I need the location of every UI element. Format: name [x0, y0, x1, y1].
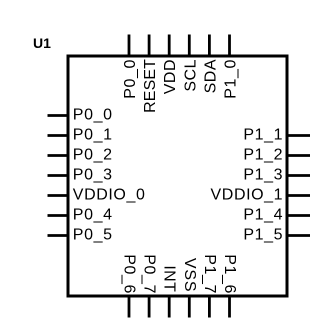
svg-text:P0_5: P0_5 [73, 227, 113, 244]
pin wire P0_0 top [128, 35, 131, 57]
svg-text:VDDIO_1: VDDIO_1 [211, 187, 284, 204]
svg-text:RESET: RESET [142, 59, 159, 113]
pin wire SDA top [208, 35, 211, 57]
svg-text:P0_4: P0_4 [73, 207, 113, 224]
svg-text:VSS: VSS [181, 258, 198, 292]
pin wire SCL top [188, 35, 191, 57]
pin wire P1_3 right [287, 174, 310, 177]
svg-text:U1: U1 [33, 35, 51, 51]
svg-text:INT: INT [161, 265, 178, 292]
svg-text:P1_6: P1_6 [221, 254, 238, 294]
svg-text:P0_1: P0_1 [73, 127, 113, 144]
pin wire P1_7 bottom [208, 296, 211, 318]
pin wire P1_5 right [287, 234, 310, 237]
pin wire RESET top [148, 35, 151, 57]
svg-text:P0_0: P0_0 [122, 59, 139, 99]
svg-text:P1_2: P1_2 [243, 147, 283, 164]
pin 2 wire P0_1 left [48, 134, 69, 137]
pin wire VDD top [168, 35, 171, 57]
pin wire VSS bottom [188, 296, 191, 318]
pin 5 wire VDDIO_0 left [48, 194, 69, 197]
svg-text:VDDIO_0: VDDIO_0 [73, 187, 146, 204]
pin wire P0_6 bottom [128, 296, 131, 318]
pin wire VDDIO_1 right [287, 194, 310, 197]
svg-text:P0_0: P0_0 [73, 107, 113, 124]
pin wire P0_7 bottom [148, 296, 151, 318]
svg-text:P1_1: P1_1 [243, 127, 283, 144]
pin 3 wire P0_2 left [48, 154, 69, 157]
pin 4 wire P0_3 left [48, 174, 69, 177]
pin 1 wire P0_0 left [48, 114, 69, 117]
pin wire P1_1 right [287, 134, 310, 137]
svg-text:P0_3: P0_3 [73, 167, 113, 184]
IC body U1 [68, 56, 287, 296]
svg-text:P1_3: P1_3 [243, 167, 283, 184]
pin 6 wire P0_4 left [48, 214, 69, 217]
svg-text:P1_0: P1_0 [223, 59, 240, 99]
svg-text:P1_5: P1_5 [243, 227, 283, 244]
pin wire P1_0 top [228, 35, 231, 57]
svg-text:P1_7: P1_7 [201, 254, 218, 294]
pin wire P1_2 right [287, 154, 310, 157]
svg-text:P0_7: P0_7 [141, 254, 158, 294]
pin wire P1_6 bottom [228, 296, 231, 318]
svg-text:P0_2: P0_2 [73, 147, 113, 164]
svg-text:P0_6: P0_6 [121, 254, 138, 294]
pin 7 wire P0_5 left [48, 234, 69, 237]
svg-text:SCL: SCL [182, 59, 199, 92]
pin wire P1_4 right [287, 214, 310, 217]
svg-text:VDD: VDD [162, 59, 179, 94]
svg-text:P1_4: P1_4 [243, 207, 283, 224]
svg-text:SDA: SDA [202, 59, 219, 93]
pin wire INT bottom [168, 296, 171, 318]
